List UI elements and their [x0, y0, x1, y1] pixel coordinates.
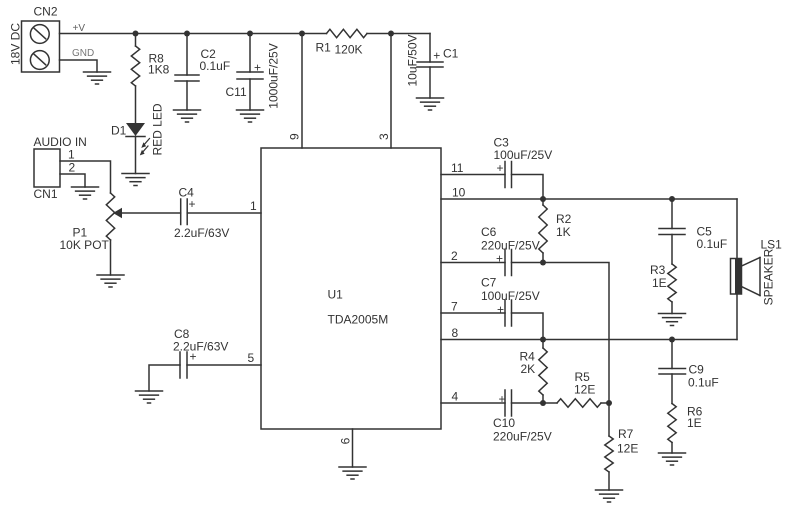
- wire pin 11: [441, 174, 505, 176]
- resistor R3: [668, 264, 676, 314]
- node junction R8: [133, 31, 139, 37]
- wire pot to ground: [110, 240, 112, 275]
- wire pin 2: [441, 262, 505, 264]
- svg-text:120K: 120K: [335, 43, 363, 57]
- svg-text:C9: C9: [689, 363, 705, 377]
- svg-text:+V: +V: [73, 23, 86, 34]
- node junction pin9: [299, 31, 305, 37]
- svg-text:1E: 1E: [687, 416, 702, 430]
- capacitor C5: [659, 199, 685, 264]
- svg-text:0.1uF: 0.1uF: [688, 376, 719, 390]
- svg-text:220uF/25V: 220uF/25V: [493, 430, 552, 444]
- svg-text:2.2uF/63V: 2.2uF/63V: [174, 226, 229, 240]
- capacitor C1: [417, 34, 443, 99]
- ground CN2: [84, 72, 111, 84]
- capacitor C11: [237, 34, 263, 111]
- wire C4 to pin 1: [187, 212, 261, 214]
- svg-text:8: 8: [452, 326, 459, 340]
- wire D1 to ground: [135, 137, 137, 174]
- resistor R2: [539, 199, 547, 263]
- capacitor C4: [181, 199, 188, 225]
- capacitor C2: [175, 34, 199, 111]
- capacitor C3: [505, 162, 512, 188]
- svg-text:3: 3: [377, 133, 391, 140]
- svg-text:+: +: [188, 197, 195, 211]
- svg-text:AUDIO IN: AUDIO IN: [34, 135, 87, 149]
- svg-text:SPEAKER: SPEAKER: [762, 248, 776, 305]
- wire C3 to pin10 line: [512, 175, 544, 200]
- svg-text:1: 1: [68, 148, 75, 162]
- wire pin 9: [301, 34, 303, 149]
- svg-text:C1: C1: [443, 47, 459, 61]
- ground C2: [174, 110, 201, 122]
- wire pin 4: [441, 402, 505, 404]
- svg-text:GND: GND: [72, 48, 94, 59]
- svg-text:100uF/25V: 100uF/25V: [481, 289, 540, 303]
- svg-text:0.1uF: 0.1uF: [697, 237, 728, 251]
- wire pin10 line to speaker: [736, 199, 738, 259]
- wire C7 to pin8 line: [512, 313, 544, 340]
- ground R6: [659, 453, 686, 465]
- node junction R4/C10/R5: [540, 400, 546, 406]
- svg-text:7: 7: [451, 300, 458, 314]
- potentiometer P1: [106, 193, 122, 240]
- svg-text:CN2: CN2: [34, 5, 58, 19]
- svg-text:+: +: [433, 49, 440, 63]
- capacitor C8: [180, 352, 187, 378]
- svg-text:1E: 1E: [652, 276, 667, 290]
- wire pin 8: [441, 339, 737, 341]
- LED D1: [126, 123, 150, 155]
- ground pin 6: [339, 467, 366, 479]
- wire C6 to corner: [512, 263, 610, 404]
- svg-text:0.1uF: 0.1uF: [200, 59, 231, 73]
- svg-text:D1: D1: [111, 124, 127, 138]
- svg-text:5: 5: [248, 351, 255, 365]
- svg-text:4: 4: [452, 390, 459, 404]
- node junction C7/R4: [540, 337, 546, 343]
- resistor R8: [135, 34, 137, 47]
- svg-text:2: 2: [69, 161, 76, 175]
- wire CN1 pin2: [60, 174, 85, 187]
- wire +V rail left: [60, 33, 327, 35]
- node junction C11: [247, 31, 253, 37]
- ground P1: [97, 275, 124, 287]
- wire +V rail right: [367, 33, 430, 35]
- svg-text:+: +: [254, 61, 261, 75]
- svg-text:1K8: 1K8: [148, 63, 170, 77]
- svg-text:2: 2: [451, 249, 458, 263]
- wire pin 7: [441, 312, 505, 314]
- capacitor C9: [659, 340, 686, 404]
- wire speaker to pin8 line: [736, 294, 738, 340]
- svg-text:6: 6: [339, 437, 353, 444]
- wire pin 6: [352, 429, 354, 467]
- ground D1: [122, 174, 149, 186]
- capacitor C10: [505, 390, 512, 416]
- connector CN1: [34, 149, 60, 187]
- svg-text:12E: 12E: [617, 441, 638, 455]
- svg-text:+: +: [189, 350, 196, 364]
- svg-text:1K: 1K: [556, 225, 571, 239]
- resistor R7: [605, 403, 613, 490]
- wire CN1 pin1 to pot: [60, 161, 111, 193]
- svg-text:2.2uF/63V: 2.2uF/63V: [173, 340, 228, 354]
- wire pin 3: [390, 34, 392, 149]
- svg-text:TDA2005M: TDA2005M: [328, 313, 389, 327]
- svg-text:C6: C6: [481, 225, 497, 239]
- connector CN2: [22, 21, 60, 72]
- node junction pin3/C1: [388, 31, 394, 37]
- svg-text:18V DC: 18V DC: [9, 23, 23, 65]
- wire wiper to C4: [122, 212, 181, 214]
- svg-text:10: 10: [452, 186, 466, 200]
- svg-text:+: +: [496, 252, 503, 266]
- ground R3: [659, 314, 686, 326]
- ground CN1: [72, 187, 99, 199]
- svg-text:R3: R3: [650, 263, 666, 277]
- resistor R4: [539, 340, 547, 404]
- resistor R6: [668, 404, 676, 454]
- node junction C2: [184, 31, 190, 37]
- svg-text:1: 1: [250, 199, 257, 213]
- svg-text:2K: 2K: [521, 362, 536, 376]
- svg-text:11: 11: [451, 161, 464, 175]
- svg-text:+: +: [496, 161, 503, 175]
- svg-text:+: +: [498, 392, 505, 406]
- svg-text:RED LED: RED LED: [151, 103, 165, 155]
- node junction C9: [669, 337, 675, 343]
- wire C10 to junction: [512, 402, 544, 404]
- svg-text:C11: C11: [226, 85, 247, 99]
- svg-text:10uF/50V: 10uF/50V: [406, 34, 420, 86]
- ground C1: [417, 98, 444, 110]
- capacitor C6: [505, 250, 512, 276]
- svg-text:220uF/25V: 220uF/25V: [481, 238, 540, 252]
- node junction R2/C6: [540, 260, 546, 266]
- capacitor C7: [505, 300, 512, 326]
- speaker LS1: [731, 258, 761, 296]
- svg-text:CN1: CN1: [34, 187, 58, 201]
- svg-text:12E: 12E: [574, 383, 595, 397]
- svg-text:U1: U1: [328, 288, 344, 302]
- wire pin 5: [187, 364, 261, 366]
- svg-text:C10: C10: [493, 416, 515, 430]
- wire C8 to ground: [149, 365, 180, 391]
- wire R8 to D1: [135, 86, 137, 123]
- svg-text:+: +: [497, 303, 504, 317]
- node junction R5/R7: [606, 400, 612, 406]
- node junction C5: [669, 196, 675, 202]
- svg-text:R2: R2: [556, 212, 572, 226]
- svg-text:100uF/25V: 100uF/25V: [494, 148, 553, 162]
- svg-text:R1: R1: [316, 41, 332, 55]
- svg-text:10K POT: 10K POT: [60, 238, 110, 252]
- ground R7: [596, 490, 623, 502]
- wire CN2 GND: [60, 60, 98, 72]
- resistor R5: [543, 399, 609, 407]
- ground C8: [136, 391, 163, 403]
- svg-text:C7: C7: [481, 275, 497, 289]
- svg-text:R7: R7: [618, 427, 634, 441]
- resistor R1: [327, 29, 368, 37]
- op-amp U1 TDA2005M: [261, 148, 441, 429]
- wire pin 10: [441, 198, 737, 200]
- svg-text:9: 9: [288, 133, 302, 140]
- svg-text:1000uF/25V: 1000uF/25V: [267, 43, 281, 108]
- ground C11: [237, 110, 264, 122]
- node junction C3/R2: [540, 196, 546, 202]
